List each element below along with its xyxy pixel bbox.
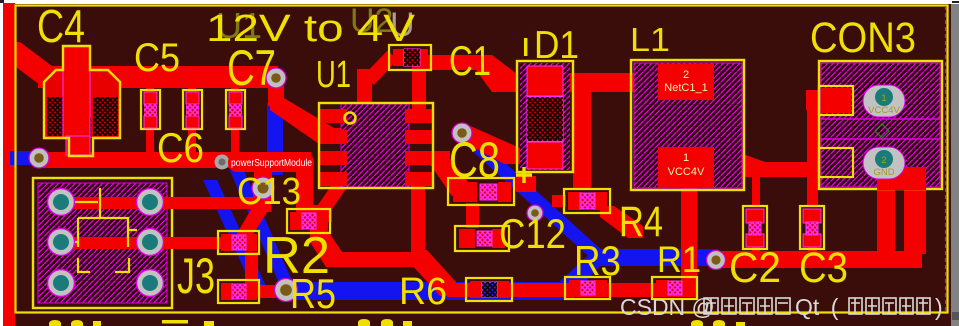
svg-text:CSDN @: CSDN @ — [620, 294, 715, 320]
svg-text:VCC4V: VCC4V — [868, 105, 900, 116]
wire red band under CON3 — [712, 162, 820, 177]
wire red C2 top stub — [752, 175, 760, 207]
resistor chip R3 — [565, 277, 610, 299]
svg-text:NetC1_1: NetC1_1 — [664, 82, 707, 94]
silkscreen J3 symbol — [74, 188, 137, 272]
pad J3-1 — [48, 189, 75, 216]
wire red into U1 pad2 — [320, 128, 348, 144]
svg-text:GND: GND — [873, 167, 894, 178]
pad CON3 pin1 VCC4V — [863, 85, 905, 117]
wire blue diagonal from C8 via to vertex — [458, 132, 605, 263]
wire red U1 right-top pad arm — [412, 66, 426, 111]
diode D1 — [517, 61, 573, 172]
wire red stub C7 top — [231, 86, 239, 92]
capacitor chip C2 — [743, 206, 767, 249]
svg-text:Qt (: Qt ( — [795, 294, 839, 320]
wire blue diagonal R6 to R3 vertex — [560, 250, 607, 294]
wire red C3 top stub / CON3 pad1 vertical — [807, 98, 818, 206]
svg-text:C12: C12 — [499, 210, 566, 257]
resistor chip R5 — [218, 280, 259, 303]
wire red stub C5 top — [146, 86, 154, 92]
wire red elbow into R2 chip — [296, 205, 332, 222]
wire red diagonal U1 top to chip C9 — [363, 51, 398, 85]
via near C7 — [266, 68, 286, 88]
wire red J3 row1 over body — [55, 197, 205, 209]
wire red C2 bottom stub — [752, 246, 760, 253]
svg-text:J3: J3 — [177, 248, 215, 304]
wire red CON3 pad1 arm — [806, 90, 854, 110]
capacitor chip C12 — [455, 226, 509, 251]
plus mark near C8 — [516, 167, 532, 183]
wire red from R5 chip to via V3 — [256, 285, 282, 298]
wire red J3 row2 over body — [55, 237, 205, 249]
wire red diagonal into C8 chip — [434, 158, 468, 196]
svg-text:powerSupportModule: powerSupportModule — [231, 157, 312, 169]
svg-text:): ) — [935, 294, 943, 320]
capacitor C6 — [183, 90, 202, 129]
wire red bend into D1 left pad — [476, 55, 517, 92]
watermark CSDN — [620, 294, 943, 320]
svg-text:C5: C5 — [134, 36, 180, 80]
wire red stub C6 bottom — [188, 127, 196, 154]
wire red diagonal from left edge to C4 — [4, 42, 60, 88]
wire red bottom row R6-R3-R1 — [447, 283, 697, 297]
polarity tick D1 — [524, 38, 527, 56]
capacitor C5 — [141, 90, 160, 129]
resistor chip R2 — [287, 209, 330, 233]
wire red stub above via V6 — [254, 164, 272, 190]
wire red D1 right vertical down — [573, 74, 591, 190]
wire red trace A: C4 to C7 via — [38, 66, 278, 88]
top-left black tick — [0, 0, 4, 3]
svg-text:C2: C2 — [729, 244, 781, 292]
wire red via V4 to D1 bottom pad — [456, 125, 520, 164]
via near C2 — [707, 251, 726, 270]
svg-text:1: 1 — [881, 93, 886, 103]
pad J3-2 — [137, 189, 164, 216]
wire red below via V6 to chip Q cluster — [253, 186, 271, 212]
wire blue vertical under C7 via — [267, 103, 283, 175]
annotation powerSupportModule — [228, 153, 314, 172]
wire red bend down from trace B — [296, 158, 313, 210]
via at blue bend — [527, 205, 543, 221]
resistor chip left of R2 — [218, 231, 259, 254]
pad J3-3 — [48, 229, 75, 256]
wire red diagonal to R6 left pad — [411, 250, 456, 296]
pad CON3-B — [819, 148, 853, 177]
pin-1 marker U1 — [345, 113, 356, 124]
svg-text:1: 1 — [683, 152, 689, 164]
resistor chip R1 — [652, 277, 697, 299]
svg-text:2: 2 — [881, 155, 886, 165]
wire blue diagonal A (C13 area, upper) — [224, 157, 293, 283]
wire red U1 pad4 diagonal down-left — [313, 186, 348, 212]
svg-text:R3: R3 — [574, 237, 621, 284]
wire red diagonal via V1 to U1 pad2 row — [270, 98, 334, 144]
wire blue stub at left edge to via — [10, 151, 39, 165]
svg-text:VCC4V: VCC4V — [668, 166, 705, 178]
resistor chip R4 — [564, 189, 610, 213]
capacitor C7 — [226, 90, 245, 129]
wire red horizontal mid link — [336, 252, 422, 267]
wire red diagonal R2 chip down — [310, 228, 342, 267]
svg-text:R5: R5 — [290, 270, 336, 317]
DRC marker CON3 — [875, 124, 889, 138]
via near R5 — [275, 279, 298, 302]
via at C13 — [252, 177, 274, 199]
wire red U1 pad3 to C8 arm — [430, 151, 450, 166]
wire red trace B: via V2 to right — [39, 152, 311, 168]
wire red from via V1 down — [268, 76, 284, 106]
svg-text:C3: C3 — [799, 244, 848, 292]
wire red U1 bottom-right vertical — [411, 186, 425, 256]
wire red stub C7 bottom — [231, 127, 239, 154]
pad J3-4 — [137, 229, 164, 256]
wire red stub C5 bottom — [146, 127, 154, 154]
op-amp U1 — [319, 103, 433, 188]
capacitor C4 — [44, 46, 120, 156]
magenta dashed edge line — [945, 6, 947, 312]
wire red diagonal L1 pad1 to right band — [712, 150, 768, 177]
inductor L1 — [631, 60, 744, 190]
wire red U1 pin8 vertical — [357, 69, 372, 106]
wire red J3 row1 link — [61, 197, 262, 209]
wire red vertical between R2 chips — [245, 252, 258, 284]
wire red J3 row2 link — [61, 237, 222, 249]
resistor chip R6 — [466, 278, 512, 301]
wire blue diagonal B (C13 area, lower) — [203, 180, 270, 295]
svg-text:CON3: CON3 — [810, 14, 916, 62]
wire red GND pad down through body — [877, 167, 926, 190]
wire blue bottom band R5-R6 — [284, 282, 575, 300]
wire red band via V5 to right — [722, 251, 922, 268]
svg-text:U1: U1 — [316, 54, 351, 96]
pad J3-6 — [137, 270, 164, 297]
pad J3-5 — [48, 270, 75, 297]
connector CON3 — [819, 61, 942, 190]
wire red C8 chip to C12 chip stub — [466, 203, 479, 228]
via at left edge — [29, 148, 49, 168]
wire red L1 pad1 vertical to R1 — [681, 186, 697, 284]
connector J3 — [33, 178, 205, 308]
marker dot powerSupportModule — [215, 155, 230, 170]
top-right black tick — [952, 1, 959, 3]
wire red right vertical to band — [904, 172, 926, 254]
bottom-right scroll arrow — [952, 312, 959, 320]
svg-text:C4: C4 — [37, 0, 85, 52]
capacitor chip C8 — [448, 178, 514, 205]
wire red diagonal to chip below C13 — [232, 206, 271, 242]
wire red CON3 GND vertical — [877, 176, 895, 254]
wire red diagonal chip R4 down-right — [552, 195, 566, 207]
wire red D1 right to L1 pad2 — [570, 73, 662, 92]
svg-text:C1: C1 — [449, 37, 491, 84]
wire red C3 bottom stub — [808, 246, 817, 253]
right gray strip — [951, 4, 959, 326]
pad CON3 pin2 GND — [863, 147, 905, 179]
via near C8 — [452, 123, 472, 143]
capacitor C9 (small chip above U1) — [389, 45, 431, 70]
wire red trace C: chip C9 to D1 — [414, 55, 484, 70]
cut-off silkscreen fragments below border — [49, 319, 745, 326]
svg-text:C7: C7 — [227, 40, 276, 96]
wire red stub C6 top — [188, 86, 196, 92]
pad CON3-A — [821, 88, 851, 113]
wire red stub below D1 — [516, 176, 536, 192]
svg-text:D1: D1 — [534, 24, 579, 67]
svg-text:C13: C13 — [237, 171, 301, 213]
wire blue band R3 to via — [594, 249, 718, 266]
svg-text:C6: C6 — [157, 124, 204, 171]
svg-text:R1: R1 — [657, 239, 701, 280]
left red stripe — [3, 3, 15, 326]
svg-text:R6: R6 — [399, 271, 447, 313]
svg-text:L1: L1 — [630, 21, 670, 58]
capacitor chip C3 — [800, 206, 824, 249]
svg-text:C8: C8 — [449, 132, 500, 188]
svg-text:2: 2 — [683, 69, 689, 81]
